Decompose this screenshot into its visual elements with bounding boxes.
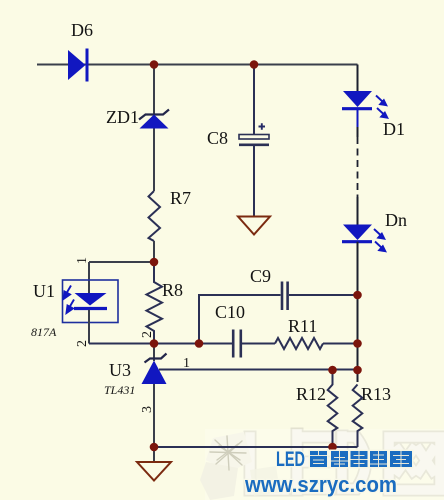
- LED Dn: [342, 225, 372, 242]
- Dn light arrows: [374, 229, 385, 251]
- wire: U3 anode down: [153, 384, 155, 447]
- svg-text:D6: D6: [71, 20, 93, 40]
- svg-text:C8: C8: [207, 128, 228, 148]
- svg-text:R13: R13: [361, 384, 391, 404]
- wire: R7 to node: [153, 241, 155, 262]
- wire: C9 branch: [199, 295, 358, 344]
- wire: to Dn: [357, 197, 359, 225]
- svg-text:U3: U3: [109, 360, 131, 380]
- watermark light band: [205, 429, 444, 500]
- svg-text:3: 3: [140, 406, 155, 413]
- wire: bottom rail: [154, 446, 358, 448]
- junction: R11 / LED column: [353, 339, 362, 348]
- junction: C9 branch / feedback row: [195, 339, 204, 348]
- resistor R8: [147, 262, 163, 344]
- wire: dashed LED string: [357, 137, 359, 197]
- resistor R7: [149, 191, 161, 241]
- wire: U3 ref to right column: [159, 369, 358, 371]
- svg-text:1: 1: [75, 257, 90, 264]
- wire: D1 to dashes: [357, 127, 359, 137]
- junction: R7 / R8 / U1 pin1: [150, 258, 159, 267]
- svg-text:ZD1: ZD1: [106, 107, 139, 127]
- D1 light arrows: [376, 96, 387, 118]
- wire: ZD1 branch vertical: [153, 65, 155, 192]
- resistor R11: [275, 338, 323, 349]
- svg-text:C10: C10: [215, 302, 245, 322]
- svg-text:D1: D1: [383, 119, 405, 139]
- wire: right column top: [357, 65, 359, 92]
- svg-text:TL431: TL431: [104, 383, 135, 397]
- wire: right column to R13: [357, 242, 359, 382]
- junction: ref row / R13 / LED column: [353, 366, 362, 375]
- junction: bottom rail / R12: [328, 443, 337, 452]
- junction: C9 / LED column: [353, 291, 362, 300]
- ground (U3): [137, 462, 171, 481]
- wire: U1 pin1 vertical: [88, 262, 90, 294]
- wire: ground stub U3: [153, 447, 155, 462]
- junction: R8 / U3 cathode / feedback row: [150, 339, 159, 348]
- junction: top rail / C8 branch: [250, 60, 259, 69]
- svg-text:817A: 817A: [31, 325, 57, 339]
- svg-text:R7: R7: [170, 188, 191, 208]
- svg-text:1: 1: [183, 356, 190, 371]
- watermark ghost LED net logo: [250, 434, 440, 490]
- svg-text:C9: C9: [250, 266, 271, 286]
- Chinese chars drawn as glyph blocks: [309, 450, 414, 469]
- zener ZD1: [139, 110, 169, 129]
- capacitor C10: [233, 330, 241, 358]
- wire: C8 branch vertical: [253, 65, 255, 135]
- resistor R12: [328, 370, 338, 447]
- wire: C8 to ground: [253, 146, 255, 216]
- svg-text:U1: U1: [33, 281, 55, 301]
- U1 box: [63, 280, 119, 323]
- svg-text:R11: R11: [288, 316, 317, 336]
- wire: input stub to D6 anode: [37, 64, 358, 66]
- LED D1: [342, 91, 372, 109]
- capacitor C8: [239, 123, 269, 145]
- junction: ref row / R12: [328, 366, 337, 375]
- U1 emission arrows: [64, 286, 75, 314]
- watermark starburst: [200, 432, 280, 500]
- watermark blue title LED power: [244, 448, 413, 497]
- diode D6: [68, 49, 87, 82]
- wire: U1 pin1 horizontal: [89, 261, 154, 263]
- resistor R13: [353, 385, 363, 448]
- wire: feedback row y=343.5: [89, 343, 358, 345]
- svg-text:LED: LED: [276, 448, 305, 471]
- svg-text:2: 2: [140, 331, 155, 338]
- junction: top rail / ZD1 branch: [150, 60, 159, 69]
- capacitor C9: [282, 282, 288, 311]
- wire: U1 pin2 vertical: [88, 310, 90, 344]
- svg-text:R12: R12: [296, 384, 326, 404]
- svg-text:2: 2: [75, 340, 90, 347]
- op-to LED of U1: [74, 293, 107, 309]
- svg-text:R8: R8: [162, 280, 183, 300]
- svg-text:Dn: Dn: [385, 210, 407, 230]
- shunt reg U3 TL431: [153, 344, 155, 362]
- wire: D1 blue lead: [357, 109, 359, 127]
- svg-text:www.szryc.com: www.szryc.com: [244, 472, 397, 497]
- ground (C8): [238, 217, 270, 235]
- junction: bottom rail / ground: [150, 443, 159, 452]
